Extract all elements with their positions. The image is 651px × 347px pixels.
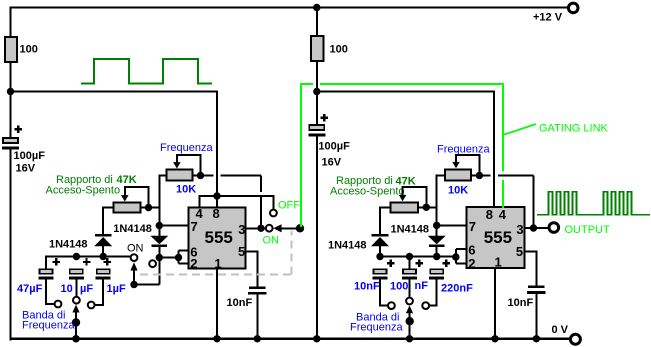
svg-text:10K: 10K — [448, 185, 468, 197]
svg-text:8: 8 — [486, 207, 493, 222]
svg-text:Acceso-Spento: Acceso-Spento — [46, 185, 121, 197]
svg-text:47µF: 47µF — [17, 283, 43, 295]
svg-text:+12 V: +12 V — [533, 12, 563, 24]
svg-text:0 V: 0 V — [552, 324, 569, 336]
svg-text:1µF: 1µF — [107, 283, 126, 295]
svg-text:GATING LINK: GATING LINK — [539, 123, 609, 135]
svg-text:µF: µF — [80, 283, 93, 295]
svg-text:10K: 10K — [176, 184, 196, 196]
svg-text:10nF: 10nF — [227, 297, 253, 309]
svg-text:10nF: 10nF — [508, 297, 534, 309]
svg-text:1N4148: 1N4148 — [391, 224, 430, 236]
svg-text:100: 100 — [20, 44, 38, 56]
svg-text:1: 1 — [214, 256, 221, 271]
svg-text:Frequenza: Frequenza — [437, 144, 490, 156]
svg-text:10nF: 10nF — [354, 281, 380, 293]
svg-text:2: 2 — [468, 256, 475, 271]
svg-text:1: 1 — [495, 255, 502, 270]
svg-text:1N4148: 1N4148 — [328, 240, 367, 252]
svg-text:7: 7 — [191, 219, 198, 234]
svg-text:7: 7 — [469, 219, 476, 234]
svg-text:3: 3 — [238, 222, 245, 237]
svg-text:2: 2 — [190, 256, 197, 271]
svg-text:Frequenza: Frequenza — [350, 322, 403, 334]
svg-text:220nF: 220nF — [441, 283, 473, 295]
svg-text:100: 100 — [390, 281, 408, 293]
svg-text:100µF: 100µF — [14, 150, 46, 162]
svg-text:4: 4 — [499, 207, 507, 222]
svg-text:Frequenza: Frequenza — [22, 320, 75, 332]
svg-text:Frequenza: Frequenza — [160, 142, 213, 154]
svg-text:OFF: OFF — [278, 200, 300, 212]
svg-text:16V: 16V — [322, 157, 342, 169]
svg-text:5: 5 — [238, 244, 245, 259]
svg-text:10: 10 — [61, 283, 73, 295]
svg-text:3: 3 — [516, 222, 523, 237]
svg-text:nF: nF — [415, 280, 429, 292]
svg-text:100: 100 — [330, 44, 348, 56]
svg-text:ON: ON — [127, 243, 144, 255]
svg-text:1N4148: 1N4148 — [113, 223, 152, 235]
svg-text:16V: 16V — [16, 163, 36, 175]
svg-text:OUTPUT: OUTPUT — [565, 224, 611, 236]
svg-text:5: 5 — [516, 244, 523, 259]
svg-text:Acceso-Spento: Acceso-Spento — [330, 186, 405, 198]
svg-text:100µF: 100µF — [318, 141, 350, 153]
svg-text:555: 555 — [205, 228, 233, 247]
svg-text:555: 555 — [484, 228, 512, 247]
svg-text:ON: ON — [263, 235, 280, 247]
svg-text:1N4148: 1N4148 — [49, 239, 88, 251]
svg-text:8: 8 — [213, 206, 220, 221]
